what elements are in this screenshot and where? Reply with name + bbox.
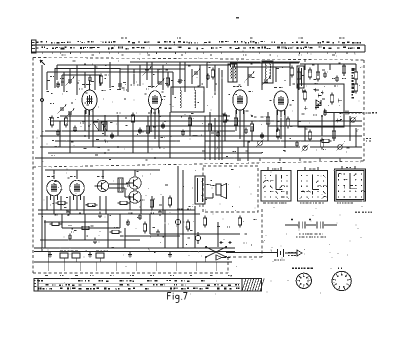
wire audio misc 2 <box>149 214 151 234</box>
potentiometer P2 <box>303 146 308 151</box>
wire vertical drop 12 <box>119 68 121 90</box>
capacitor C5 <box>118 83 122 85</box>
wire vertical drop 5 <box>63 72 65 92</box>
registration mark top <box>236 17 239 18</box>
capacitor C3 <box>88 77 92 79</box>
battery detail diagram <box>288 224 298 226</box>
capacitor C13 <box>323 73 327 75</box>
transistor T2 <box>129 177 141 189</box>
mid vertical wire 3 <box>104 116 106 136</box>
capacitor C22 <box>260 134 264 136</box>
resistor R6 <box>308 70 311 77</box>
tube pin feeder 4 <box>150 110 152 131</box>
audio drop 4 <box>69 196 71 214</box>
wire top loop c <box>95 64 215 66</box>
wire osc drop 3 <box>261 63 263 90</box>
wire out drop 5 <box>355 64 357 70</box>
osc coil form 1 <box>228 64 237 82</box>
resistor R4 <box>290 68 293 75</box>
battery B1 <box>277 249 279 257</box>
label V2 <box>148 86 151 87</box>
tube pin feeder 2 <box>88 110 90 139</box>
capacitor C19 <box>181 131 185 133</box>
resistor R17 <box>223 115 226 122</box>
bus wire 9 <box>40 146 300 148</box>
wafer switch SK1 label <box>272 169 273 170</box>
mid vertical wire 2 <box>69 112 71 153</box>
detector inner parts <box>336 119 341 121</box>
bus wire 5 <box>45 130 235 132</box>
resistor R41 <box>330 95 333 102</box>
capacitor C9 <box>206 75 210 77</box>
resistor R13 <box>131 115 134 122</box>
bottom band left bracket <box>34 279 38 292</box>
resistor R23 <box>58 201 65 204</box>
capacitor C34 <box>56 131 60 133</box>
wire vertical drop 14 <box>133 69 135 84</box>
audio drop 12 <box>162 196 164 214</box>
resistor R39 <box>276 130 279 137</box>
battery compartment dashed <box>261 209 263 257</box>
figure caption Fig.7 <box>168 293 187 303</box>
mid vertical wire 14 <box>321 116 323 136</box>
schematic annotation specks upper <box>171 80 173 81</box>
electrolytic C28 <box>175 219 180 224</box>
driver transformer <box>118 178 123 192</box>
wire vertical drop 24 <box>191 69 193 84</box>
resistor R12 <box>103 124 106 131</box>
label B5 <box>47 176 50 177</box>
tube pin feeder 5 <box>154 110 156 139</box>
resistor R5 <box>297 72 300 79</box>
resistor R40 <box>303 92 306 99</box>
label R1953L <box>355 212 357 214</box>
wire top loop d <box>57 64 128 66</box>
terminal block TB1 <box>60 253 68 258</box>
bottom band lower rail <box>34 290 262 292</box>
transistor T3 <box>129 191 141 203</box>
junction dots mid <box>209 140 211 142</box>
mid vertical wire 16 <box>349 116 351 141</box>
wire vertical drop 2 <box>54 68 56 88</box>
audio tiny labels <box>91 225 94 226</box>
wire lower top b <box>53 170 55 179</box>
resistor R29 <box>238 218 241 225</box>
electrolytic C33 <box>195 235 200 240</box>
capacitor C23 <box>295 142 299 144</box>
label F1 fuse <box>366 138 368 139</box>
capacitor C16 <box>110 134 114 136</box>
wire osc drop 2 <box>247 67 249 86</box>
wire vertical drop 7 <box>76 65 78 95</box>
transistor T1 <box>97 180 108 191</box>
resistor R26 <box>150 200 153 207</box>
wafer bottom labels <box>263 203 266 204</box>
dial strip upper rail <box>32 44 365 46</box>
switch S on-off <box>206 247 226 257</box>
wafer switch SK2 <box>298 171 328 202</box>
wire lower misc i <box>124 228 126 248</box>
resistor R33 <box>143 224 146 231</box>
audio bus a <box>38 209 195 211</box>
wire top bus <box>130 61 300 63</box>
wire osc drop 5 <box>289 63 291 86</box>
resistor R10 <box>354 84 357 91</box>
terminal circle <box>40 98 43 101</box>
tube V5 <box>47 180 62 196</box>
wafer switch SK3 <box>335 169 366 201</box>
wire detector out <box>324 112 362 114</box>
mid vertical wire 4 <box>117 116 119 136</box>
bus wire 2 <box>50 120 362 122</box>
tube V1 <box>82 90 97 110</box>
resistor R19 <box>266 117 269 124</box>
terminal block TB2 <box>96 253 104 258</box>
capacitor C32 <box>156 231 160 233</box>
wire vertical drop 4 <box>61 75 63 86</box>
output transformer T3 core <box>195 176 205 204</box>
capacitor C31 <box>126 221 130 223</box>
resistor R16 <box>208 124 211 131</box>
wire vertical drop 21 <box>172 72 174 95</box>
wire lower misc h <box>84 214 86 240</box>
potentiometer P4 <box>338 145 343 150</box>
wire lower top a <box>45 169 160 171</box>
audio drop 1 <box>46 196 48 210</box>
wire vertical drop 27 <box>214 65 216 95</box>
tube base B2 <box>332 271 351 290</box>
lead labels above band <box>45 275 48 276</box>
left rail lower stub <box>41 250 43 252</box>
capacitor C21 <box>244 129 248 131</box>
audio drop 11 <box>151 196 153 210</box>
tube pin feeder 9 <box>243 110 245 147</box>
wire vertical drop 9 <box>94 65 96 90</box>
upper RF tiny labels <box>50 76 52 77</box>
wire lower misc f <box>44 221 108 223</box>
vertical chassis code text <box>352 68 355 71</box>
stub wires to lower dashed <box>239 158 241 161</box>
resistor R14 <box>146 126 149 133</box>
resistor R21 <box>320 140 323 147</box>
audio drop 6 <box>83 196 85 214</box>
label B6 <box>70 176 73 177</box>
upper right tiny labels <box>304 60 306 61</box>
tuning gang section 2 <box>101 122 107 131</box>
trimmer C4 <box>145 69 149 71</box>
trimmer C6 <box>158 81 162 83</box>
wire vertical drop 1 <box>46 72 48 90</box>
tube pin feeder 12 <box>284 110 286 147</box>
tube pin feeder 11 <box>280 110 282 139</box>
dial strip lower rail <box>32 51 365 53</box>
audio drop 5 <box>76 196 78 210</box>
resistor R27 <box>168 198 171 205</box>
capacitor C27 <box>158 211 162 213</box>
long vertical pair <box>177 166 179 248</box>
wire lower misc d <box>217 222 219 247</box>
long vertical B <box>209 112 211 160</box>
leads into band <box>47 262 49 271</box>
wire vertical drop 25 <box>199 65 201 86</box>
bottom band inner rail 2 <box>38 286 240 288</box>
wire vertical drop 11 <box>109 62 111 88</box>
tube pin feeder 8 <box>239 110 241 139</box>
left rail wire <box>41 65 43 250</box>
bottom band text row 1 <box>39 280 40 281</box>
wire lower misc e <box>40 239 140 241</box>
potentiometer P1 <box>258 141 263 146</box>
audio drop 3 <box>60 196 62 210</box>
audio bus b <box>38 213 200 215</box>
mid vertical <box>194 206 196 248</box>
wire vertical drop 3 <box>56 65 58 80</box>
mid band tiny labels <box>49 117 52 118</box>
resistor R11 <box>64 118 67 125</box>
audio drop 2 <box>53 196 55 214</box>
wire osc link <box>215 64 230 66</box>
scan noise <box>64 282 65 283</box>
IF transformer IF1 <box>171 87 204 112</box>
antenna arrow <box>40 60 45 65</box>
wire right band c <box>355 128 357 147</box>
wafer switch SK3 label <box>346 167 348 168</box>
long vertical C <box>214 118 216 160</box>
drop to band left <box>47 252 49 262</box>
wafer connection ticks <box>267 167 269 170</box>
tube base B2 label <box>338 268 339 270</box>
wire lower misc g <box>120 235 180 237</box>
labels above chassis dashed <box>61 55 63 56</box>
wire vertical drop 18 <box>157 69 159 84</box>
wire out drop 3 <box>329 64 331 70</box>
mid vertical wire 13 <box>304 126 306 141</box>
resistor R15 <box>188 118 191 125</box>
wire out drop 2 <box>317 64 319 76</box>
bottom band inner rail 1 <box>38 282 240 284</box>
ground 1 <box>49 252 51 255</box>
bottom band hatched box <box>242 279 262 292</box>
dial strip tick marks <box>42 52 44 54</box>
wire out drop 4 <box>343 64 345 76</box>
capacitor C7 <box>178 79 182 81</box>
wire vertical drop 6 <box>69 68 71 84</box>
resistor R9 <box>354 72 357 79</box>
label B1 <box>274 260 276 261</box>
capacitor C15 <box>73 127 77 129</box>
dashed wire to L7 <box>348 112 371 114</box>
resistor R3 <box>211 70 214 77</box>
mid vertical wire 6 <box>147 116 149 153</box>
label V1 <box>82 84 85 85</box>
bus wire 7 <box>55 140 180 142</box>
wire vertical drop 8 <box>84 72 86 88</box>
wire vertical drop 29 <box>221 70 223 160</box>
dial strip station text row <box>37 47 39 48</box>
tube V3 <box>233 90 247 110</box>
plus marks <box>219 242 222 244</box>
volume pot P3 <box>351 118 356 123</box>
label V3 <box>233 86 235 87</box>
chassis boundary top dashed <box>33 58 364 61</box>
wire to battery <box>226 252 277 254</box>
tube V6 <box>70 180 85 196</box>
plug arrow <box>297 250 302 256</box>
speaker compartment dashed box <box>203 166 258 212</box>
mid vertical wire 7 <box>169 112 171 158</box>
chassis boundary right dashed <box>363 60 365 161</box>
wire thin bus y262 <box>34 261 232 263</box>
tube pin feeder 7 <box>235 110 237 131</box>
mid vertical wire 12 <box>267 112 269 141</box>
variable cap VC1 <box>60 107 64 109</box>
tube V4 <box>274 91 288 111</box>
dial strip left bracket <box>32 40 37 53</box>
dial strip end cap <box>364 45 366 52</box>
chassis boundary step dashed <box>227 257 229 273</box>
wire audio misc 3 <box>62 227 120 229</box>
label T51 <box>97 176 100 177</box>
bus wire 11 <box>35 157 362 159</box>
bus wire 1 <box>60 115 230 117</box>
chassis boundary mid dashed <box>33 161 364 167</box>
wire audio misc 1 <box>150 233 240 235</box>
capacitor C17 <box>138 129 142 131</box>
capacitor C41 <box>345 110 347 114</box>
wire right band a <box>298 135 362 137</box>
audio drop 10 <box>140 196 142 214</box>
tube pin feeder 1 <box>84 110 86 131</box>
dial strip upper label row <box>36 42 38 43</box>
capacitor C2 <box>56 83 60 85</box>
tube base B7 label <box>292 268 294 270</box>
resistor R36 <box>322 139 329 142</box>
bus wire 8 <box>205 140 320 142</box>
output transformer T2 core <box>297 66 304 88</box>
resistor R32 <box>112 230 119 233</box>
wire osc drop 1 <box>232 63 234 82</box>
wire lower misc c <box>164 210 166 248</box>
ground 2 <box>89 252 91 255</box>
wire vertical drop 13 <box>127 65 129 92</box>
wire osc loop a <box>230 62 299 64</box>
wire vertical drop 19 <box>162 65 164 90</box>
tube pin feeder 6 <box>158 110 160 147</box>
wire out bus <box>300 63 356 65</box>
wire vertical drop 23 <box>184 62 186 92</box>
label V4 <box>274 87 277 88</box>
wire vertical drop 22 <box>179 62 181 84</box>
tube pin feeder 10 <box>276 110 278 131</box>
audio drop 8 <box>105 196 107 214</box>
mid vertical wire 1 <box>59 121 61 147</box>
mid vertical wire 15 <box>333 112 335 141</box>
resistor R20 <box>308 132 311 139</box>
mid vertical wire 9 <box>209 116 211 153</box>
resistor R31 <box>82 226 89 229</box>
wire right band b <box>310 146 362 148</box>
tube pin feeder 3 <box>92 110 94 147</box>
battery detail caption <box>299 234 301 235</box>
tube base B7 <box>296 273 311 288</box>
trimmer C1 <box>68 79 72 81</box>
wafer switch SK1 <box>261 171 291 202</box>
tuning gang section 1 <box>93 122 99 131</box>
capacitor C29 <box>68 235 72 237</box>
pickup arrow <box>216 255 222 260</box>
capacitor C30 <box>93 239 97 241</box>
capacitor C14 <box>335 77 339 79</box>
wire vertical drop 16 <box>146 62 148 80</box>
resistor R18 <box>250 124 253 131</box>
audio drop 7 <box>99 196 101 210</box>
tube V2 <box>149 91 162 110</box>
bus wire 6 <box>40 135 340 137</box>
resistor R22 <box>332 131 335 138</box>
bottom bus 1 <box>34 247 235 249</box>
resistor R34 <box>186 222 189 229</box>
resistor R24 <box>88 203 95 206</box>
wire out drop 1 <box>304 64 306 70</box>
wire vertical drop 15 <box>139 65 141 86</box>
chassis boundary bottom-left dashed <box>33 272 228 274</box>
wire vertical drop 10 <box>99 75 101 86</box>
bus wire 4 <box>268 125 362 127</box>
schematic annotation specks lower <box>165 185 168 186</box>
bus wire 10 <box>48 152 262 154</box>
resistor R2 <box>166 78 169 85</box>
osc coil form 2 <box>262 61 273 83</box>
capacitor C18 <box>161 124 165 126</box>
wire top loop b <box>55 68 120 70</box>
resistor R8 <box>342 66 345 73</box>
resistor R38 <box>286 119 289 126</box>
chassis boundary left dashed <box>32 58 34 274</box>
trimmer C12 <box>264 79 268 81</box>
resistor R35 <box>50 118 53 125</box>
resistor R25 <box>120 201 127 204</box>
mid vertical wire 5 <box>132 121 134 153</box>
trimmer C11 <box>248 74 252 76</box>
bottom band text row 2 <box>45 284 48 285</box>
wire top loop f <box>120 68 185 70</box>
speaker SP <box>216 184 221 195</box>
ground 3 <box>129 252 131 255</box>
stub wires above squares <box>237 147 239 161</box>
capacitor C26 <box>138 215 142 217</box>
wire lower misc a <box>44 220 46 248</box>
long vertical A <box>204 116 206 160</box>
mid vertical wire 10 <box>224 121 226 141</box>
capacitor C25 <box>98 213 102 215</box>
capacitor C40 <box>323 111 327 113</box>
capacitor C24 <box>66 211 70 213</box>
tube V1 grid cap wire <box>89 80 91 90</box>
audio drop 9 <box>129 196 131 210</box>
wire lower misc b <box>107 214 109 248</box>
wire vertical drop 17 <box>151 62 153 88</box>
label L7 <box>372 112 374 113</box>
bottom bus 2 <box>34 251 235 253</box>
wire top loop a <box>47 71 173 73</box>
variable cap VC2 <box>68 111 72 113</box>
resistor R28 <box>203 218 206 225</box>
trimmer C8 <box>194 71 198 73</box>
bottom band text row 3 <box>38 288 39 290</box>
resistor R7 <box>316 72 319 79</box>
wire vertical drop 26 <box>206 62 208 88</box>
wire osc drop 4 <box>275 67 277 82</box>
